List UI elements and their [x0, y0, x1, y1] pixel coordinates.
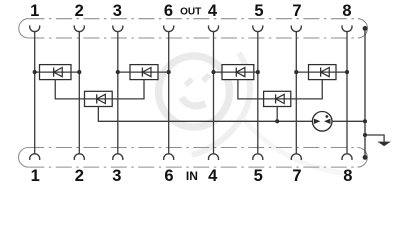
- terminal 4 bottom socket: [209, 154, 219, 160]
- wire V2 bottom to V5 right: [112, 80, 144, 99]
- terminal 6 top socket: [164, 25, 174, 31]
- suppressor diode V5 (line 2-3 stage): [85, 91, 113, 106]
- svg-text:5: 5: [254, 167, 263, 185]
- junction node terminal 1: [33, 70, 37, 74]
- svg-text:7: 7: [292, 167, 301, 185]
- terminal 8 bottom socket: [342, 154, 352, 160]
- svg-text:2: 2: [75, 2, 84, 20]
- svg-text:1: 1: [30, 2, 39, 20]
- wire link terminal 4 to 5: [214, 71, 258, 73]
- svg-text:4: 4: [208, 2, 218, 20]
- wire terminal 3 vertical: [117, 32, 119, 154]
- suppressor diode V3 (terminals 4-5): [222, 65, 254, 80]
- wire V3 bottom to V6 left: [238, 80, 264, 99]
- wire V4 bottom to V6 right: [291, 80, 322, 99]
- PE contact node top: [363, 26, 368, 31]
- terminal 2 bottom socket: [74, 154, 84, 160]
- junction node bus/earth branch: [363, 133, 367, 137]
- wire terminal 8 vertical: [346, 32, 348, 154]
- suppressor diode V6 (line 5-7 stage): [264, 91, 291, 106]
- enclosure outline top (dash-dot): [19, 19, 368, 38]
- svg-text:6: 6: [164, 2, 173, 20]
- wire terminal 7 vertical: [295, 32, 297, 154]
- svg-text:2: 2: [75, 167, 84, 185]
- wire V6 bottom to ground rail: [276, 107, 278, 122]
- terminal 1 bottom socket: [30, 154, 40, 160]
- PE contact node bottom: [363, 155, 368, 160]
- terminal 4 top socket: [209, 25, 219, 31]
- terminal 1 top socket: [30, 25, 40, 31]
- svg-text:7: 7: [292, 2, 301, 20]
- wire link terminal 7 to 8: [296, 71, 347, 73]
- suppressor diode V1 (terminals 1-2): [40, 65, 72, 80]
- terminal 3 bottom socket: [113, 154, 123, 160]
- suppressor diode V4 (terminals 7-8): [309, 65, 337, 80]
- gas discharge tube F1: [312, 112, 332, 132]
- svg-text:8: 8: [343, 167, 352, 185]
- wire terminal 4 vertical: [213, 32, 215, 154]
- junction node terminal 7: [294, 70, 298, 74]
- junction node terminal 2: [77, 70, 81, 74]
- wire V1 bottom to V5 left: [55, 80, 84, 99]
- svg-text:6: 6: [164, 167, 173, 185]
- terminal 7 top socket: [291, 25, 301, 31]
- suppressor diode V2 (terminals 3-6): [130, 65, 158, 80]
- terminal 6 bottom socket: [164, 154, 174, 160]
- terminal 8 top socket: [342, 25, 352, 31]
- svg-text:8: 8: [342, 2, 351, 20]
- wire bus to earth: [365, 135, 384, 142]
- junction node terminal 3: [116, 70, 120, 74]
- terminal 5 top socket: [253, 25, 263, 31]
- enclosure outline bottom (dash-dot): [18, 148, 367, 168]
- junction node terminal 8: [345, 70, 349, 74]
- terminal 2 top socket: [74, 25, 84, 31]
- svg-text:1: 1: [31, 167, 40, 185]
- wire terminal 6 vertical: [168, 32, 170, 154]
- wire terminal 2 vertical: [78, 32, 80, 154]
- terminal 7 bottom socket: [291, 154, 301, 160]
- svg-text:3: 3: [113, 2, 122, 20]
- wire ground rail (V5 bottom to PE bus): [98, 107, 365, 122]
- terminal 5 bottom socket: [253, 154, 263, 160]
- wire PE bus vertical: [364, 28, 366, 157]
- svg-text:3: 3: [112, 167, 121, 185]
- junction node V6/rail: [275, 119, 279, 123]
- junction node terminal 4: [211, 70, 215, 74]
- junction node rail/bus: [363, 119, 367, 123]
- junction node terminal 6: [167, 70, 171, 74]
- ground: [377, 142, 390, 147]
- svg-text:5: 5: [254, 2, 263, 20]
- svg-text:4: 4: [208, 167, 218, 185]
- wire terminal 1 vertical: [34, 32, 36, 154]
- svg-text:OUT: OUT: [180, 6, 201, 17]
- terminal 3 top socket: [113, 25, 123, 31]
- wire link terminal 3 to 6: [118, 71, 169, 73]
- junction node terminal 5: [256, 70, 260, 74]
- svg-text:IN: IN: [186, 169, 198, 183]
- wire terminal 5 vertical: [257, 32, 259, 154]
- wire link terminal 1 to 2: [35, 71, 80, 73]
